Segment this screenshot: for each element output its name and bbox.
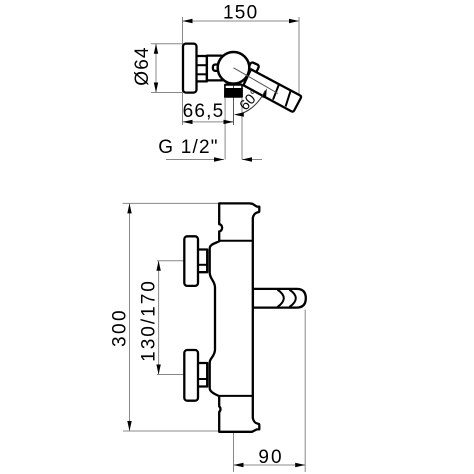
svg-text:150: 150 [223, 3, 258, 24]
svg-text:66,5: 66,5 [183, 101, 225, 122]
svg-text:90: 90 [258, 447, 283, 468]
svg-text:300: 300 [109, 308, 130, 347]
svg-text:G 1/2": G 1/2" [158, 137, 218, 158]
svg-text:130/170: 130/170 [138, 279, 159, 362]
svg-text:Ø64: Ø64 [132, 46, 153, 86]
